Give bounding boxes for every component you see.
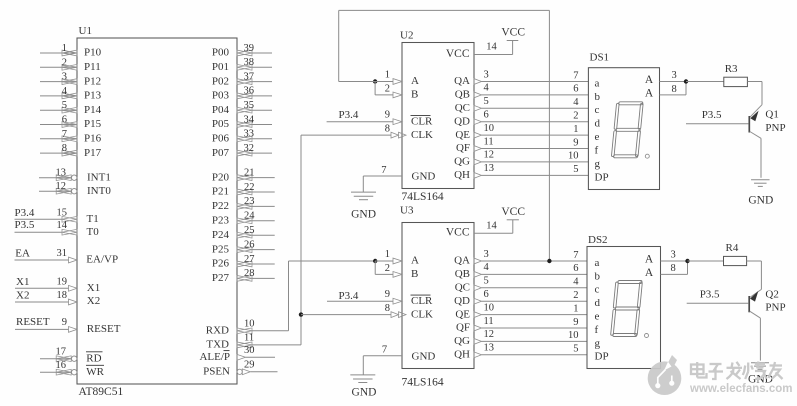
svg-text:g: g (595, 158, 601, 170)
U3 pin 1 A input arrow (393, 258, 402, 264)
wire U3 QD to DS2 segment (482, 300, 588, 302)
U2 pin 1 A input arrow (393, 79, 402, 85)
wire U2 QB to DS1 segment (482, 94, 589, 96)
svg-text:3: 3 (671, 249, 676, 260)
U1 pin 23 P22 wire (252, 205, 275, 207)
U1 pin 2 P11 wire (40, 66, 77, 68)
svg-text:CLR: CLR (411, 295, 433, 307)
U2 pin 11 QF output arrow (474, 146, 482, 152)
svg-text:6: 6 (573, 84, 578, 95)
U2 pin 10 QE output arrow (474, 132, 482, 138)
svg-text:4: 4 (573, 97, 579, 108)
U3 pin 7 GND wire (363, 355, 402, 357)
svg-text:P05: P05 (212, 118, 230, 130)
svg-text:32: 32 (244, 143, 255, 154)
svg-text:9: 9 (385, 110, 390, 121)
wire U3 QC to DS2 segment (482, 287, 588, 289)
RXD net horizontal to U3 A/B (289, 260, 376, 262)
svg-text:DP: DP (595, 171, 609, 183)
cascade net: right riser down to U3 QA row (548, 10, 550, 261)
ground symbol below U2 (351, 191, 376, 193)
svg-text:TXD: TXD (206, 338, 229, 350)
svg-text:P15: P15 (84, 118, 102, 130)
U1 pin 33 P06 wire (252, 138, 272, 140)
svg-text:2: 2 (62, 57, 67, 68)
wire U2 QH to DS1 segment (482, 174, 589, 176)
U1 pin 7 P16 wire (40, 138, 77, 140)
wire U3 QG to DS2 segment (482, 340, 588, 342)
U3 pin 8 CLK input double arrow (391, 312, 399, 318)
RXD net vertical riser (288, 261, 290, 331)
U2 pin 12 QG output arrow (474, 159, 482, 165)
U2 pin 7 GND wire (363, 175, 402, 177)
svg-text:P3.5: P3.5 (15, 219, 35, 231)
svg-text:VCC: VCC (501, 206, 525, 218)
svg-text:R4: R4 (726, 242, 739, 254)
svg-text:QC: QC (455, 102, 470, 114)
transistor Q1 PNP (750, 105, 762, 118)
svg-text:P10: P10 (84, 47, 102, 59)
svg-text:RXD: RXD (206, 324, 229, 336)
svg-text:GND: GND (351, 209, 376, 221)
svg-text:4: 4 (484, 262, 490, 273)
Q1 collector (750, 132, 761, 139)
svg-text:QB: QB (455, 268, 470, 280)
U1 pin 24 P23 wire (252, 220, 275, 222)
svg-text:B: B (411, 268, 418, 280)
svg-text:U1: U1 (79, 25, 92, 37)
U3 pin 2 B input arrow (393, 272, 402, 278)
U1 pin 4 P13 wire (40, 95, 77, 97)
svg-text:QG: QG (454, 156, 470, 168)
svg-text:7: 7 (382, 344, 387, 355)
svg-text:5: 5 (573, 344, 578, 355)
7-segment display DS2 box (587, 247, 661, 369)
svg-text:PNP: PNP (765, 302, 785, 314)
svg-text:38: 38 (244, 57, 255, 68)
svg-text:6: 6 (573, 263, 578, 274)
svg-text:14: 14 (57, 220, 68, 231)
svg-text:8: 8 (62, 143, 67, 154)
svg-text:EA/VP: EA/VP (86, 254, 118, 266)
U1 pin 12 INT0 wire (39, 190, 71, 192)
svg-text:PNP: PNP (765, 122, 785, 134)
svg-text:17: 17 (56, 347, 67, 358)
svg-text:INT0: INT0 (87, 185, 111, 197)
svg-text:QE: QE (455, 308, 470, 320)
svg-text:QE: QE (455, 129, 470, 141)
svg-text:7: 7 (573, 250, 578, 261)
U2 pin 13 QH output arrow (474, 173, 482, 179)
svg-text:INT1: INT1 (87, 171, 111, 183)
svg-text:Q1: Q1 (765, 108, 778, 120)
U1 pin 38 P01 wire (252, 66, 272, 68)
wire R3 to Q1 emitter (747, 81, 762, 83)
svg-text:P11: P11 (84, 61, 101, 73)
svg-text:QA: QA (454, 75, 470, 87)
svg-text:X2: X2 (87, 295, 100, 307)
svg-text:b: b (595, 270, 601, 282)
svg-text:13: 13 (484, 163, 495, 174)
U1 pin 37 P02 wire (252, 81, 272, 83)
svg-text:35: 35 (244, 100, 255, 111)
svg-text:P02: P02 (212, 75, 229, 87)
svg-text:22: 22 (244, 182, 255, 193)
svg-text:9: 9 (385, 289, 390, 300)
wire U2 QD to DS1 segment (482, 121, 589, 123)
DS2 seven segment digit (611, 281, 643, 337)
svg-text:AT89C51: AT89C51 (79, 386, 124, 398)
U1 pin 5 P14 wire (40, 109, 77, 111)
svg-text:P17: P17 (84, 147, 102, 159)
wire U2 QG to DS1 segment (482, 161, 589, 163)
U1 pin 29 PSEN wire (251, 371, 278, 373)
DS2 pin 8 A wire (661, 273, 688, 275)
U1 pin 18 X2 wire (15, 301, 69, 303)
cascade net: junction dot at U2 A/B (373, 79, 377, 83)
U2 pin 5 QC output arrow (474, 105, 482, 111)
svg-text:3: 3 (62, 72, 67, 83)
svg-text:33: 33 (244, 129, 255, 140)
svg-text:74LS164: 74LS164 (402, 376, 444, 388)
U3 pin 11 QF output arrow (474, 325, 482, 331)
svg-text:30: 30 (244, 345, 255, 356)
svg-text:7: 7 (381, 165, 386, 176)
svg-text:39: 39 (244, 43, 255, 54)
svg-text:R3: R3 (725, 63, 738, 75)
svg-text:b: b (595, 91, 601, 103)
svg-text:U3: U3 (400, 205, 414, 217)
junction dot at U3 A/B input (373, 259, 377, 263)
U1 pin 22 P21 wire (252, 191, 275, 193)
U3 pin 9 CLR input wire from P3.4 (327, 300, 393, 302)
svg-text:A: A (411, 255, 419, 267)
svg-text:27: 27 (244, 254, 255, 265)
svg-text:9: 9 (573, 137, 578, 148)
U3 pin 6 QD output arrow (474, 298, 482, 304)
cascade net: horizontal from riser (339, 81, 375, 83)
drop to U3 B (374, 261, 376, 274)
U3 pin 10 QE output arrow (474, 312, 482, 318)
TXD net junction at U3 CLK (299, 312, 303, 316)
svg-text:2: 2 (385, 83, 390, 94)
svg-text:P27: P27 (212, 272, 230, 284)
svg-text:3: 3 (484, 249, 489, 260)
TXD net branch to U2 CLK (301, 134, 391, 136)
resistor R4 (724, 256, 747, 265)
VCC power symbol for U3 (507, 219, 519, 221)
wire U3 QF to DS2 segment (482, 327, 588, 329)
svg-text:12: 12 (484, 329, 495, 340)
resistor R3 (724, 77, 748, 86)
svg-text:P22: P22 (212, 200, 229, 212)
svg-text:X1: X1 (87, 282, 100, 294)
U1 pin 31 EA/VP wire (15, 259, 69, 261)
DS1 pin 3 A wire (660, 81, 687, 83)
svg-text:P3.4: P3.4 (339, 290, 359, 302)
svg-text:3: 3 (484, 69, 489, 80)
svg-text:11: 11 (484, 316, 494, 327)
svg-text:1: 1 (573, 124, 578, 135)
U1 pin 10 RXD wire (serial data net to U3 A/B) (252, 330, 289, 332)
svg-text:12: 12 (484, 150, 495, 161)
svg-text:1: 1 (62, 43, 67, 54)
U1 pin 19 X1 wire (15, 287, 69, 289)
svg-text:X1: X1 (16, 276, 29, 288)
svg-text:2: 2 (573, 290, 578, 301)
svg-text:13: 13 (484, 343, 495, 354)
watermark logo circle (648, 355, 682, 395)
svg-text:RESET: RESET (87, 323, 121, 335)
svg-text:8: 8 (671, 263, 676, 274)
DS1 anode tie vertical (685, 82, 687, 95)
microcontroller U1 box (77, 38, 237, 384)
svg-text:a: a (595, 257, 600, 269)
svg-text:6: 6 (484, 110, 489, 121)
cascade junction dot on U3 QA row (547, 259, 551, 263)
svg-text:c: c (595, 104, 600, 116)
svg-text:CLK: CLK (411, 308, 433, 320)
svg-text:U2: U2 (400, 30, 413, 42)
U1 pin 21 P20 wire (252, 177, 275, 179)
svg-text:d: d (595, 297, 601, 309)
svg-text:P20: P20 (212, 171, 230, 183)
ground symbol at Q1 (751, 179, 770, 181)
svg-text:DS2: DS2 (588, 234, 608, 246)
svg-text:QD: QD (454, 115, 470, 127)
svg-text:8: 8 (672, 84, 677, 95)
svg-text:5: 5 (62, 100, 67, 111)
svg-text:7: 7 (573, 70, 578, 81)
U1 pin 34 P05 wire (252, 124, 272, 126)
svg-text:P04: P04 (212, 104, 230, 116)
svg-text:18: 18 (57, 290, 68, 301)
svg-text:QA: QA (454, 255, 470, 267)
DS1 anode junction dot (684, 79, 688, 83)
svg-text:RESET: RESET (16, 316, 50, 328)
svg-text:P14: P14 (84, 104, 102, 116)
svg-text:P21: P21 (212, 186, 229, 198)
svg-text:QB: QB (455, 89, 470, 101)
svg-text:2: 2 (385, 263, 390, 274)
svg-text:19: 19 (57, 276, 68, 287)
svg-text:GND: GND (412, 171, 436, 183)
DS1 seven segment digit (611, 102, 643, 158)
U1 pin 1 P10 wire (40, 52, 77, 54)
DS2 anode tie vertical (687, 261, 689, 274)
shift register U2 box (402, 43, 474, 189)
svg-text:10: 10 (484, 123, 495, 134)
U2 pin 6 QD output arrow (474, 119, 482, 125)
svg-text:1: 1 (385, 249, 390, 260)
U3 pin 5 QC output arrow (474, 285, 482, 291)
wire DS1 anode to R3 (686, 81, 724, 83)
svg-text:6: 6 (62, 115, 67, 126)
svg-text:4: 4 (573, 277, 579, 288)
svg-text:P12: P12 (84, 75, 101, 87)
svg-text:8: 8 (385, 303, 390, 314)
ground symbol below U3 (350, 374, 375, 376)
svg-text:VCC: VCC (446, 48, 470, 60)
ground symbol at Q2 (751, 362, 769, 364)
U1 pin 32 P07 wire (252, 152, 272, 154)
svg-text:37: 37 (244, 71, 255, 82)
shift register U3 box (402, 223, 474, 369)
svg-text:P01: P01 (212, 61, 229, 73)
svg-text:9: 9 (62, 317, 67, 328)
Q2 collector (750, 311, 761, 318)
svg-text:EA: EA (15, 247, 30, 259)
svg-text:5: 5 (484, 96, 489, 107)
svg-text:GND: GND (352, 387, 377, 399)
svg-text:P07: P07 (212, 147, 230, 159)
DS2 decimal point (645, 334, 649, 338)
wire U3 QH to DS2 segment (482, 354, 588, 356)
svg-text:VCC: VCC (446, 227, 470, 239)
DS1 pin 8 A wire (660, 94, 687, 96)
svg-text:10: 10 (244, 319, 255, 330)
svg-text:34: 34 (244, 114, 255, 125)
U1 pin 13 INT1 wire (39, 177, 71, 179)
U1 pin 14 T0 wire from P3.5 (15, 231, 63, 233)
svg-text:QG: QG (454, 335, 470, 347)
svg-text:T0: T0 (87, 226, 100, 238)
svg-text:A: A (645, 267, 654, 279)
U2 pin 8 CLK input double arrow (391, 132, 399, 138)
svg-text:10: 10 (568, 330, 579, 341)
U1 pin 30 ALE/P wire (246, 356, 276, 358)
svg-text:QH: QH (454, 169, 470, 181)
U1 pin 36 P03 wire (252, 95, 272, 97)
watermark text (stylized CJK strokes) (691, 362, 783, 380)
U1 pin 15 T1 wire from P3.4 (15, 218, 63, 220)
svg-text:A: A (645, 254, 654, 266)
svg-text:DP: DP (595, 351, 609, 363)
U2 pin 9 CLR input wire from P3.4 (327, 121, 393, 123)
svg-text:36: 36 (244, 86, 255, 97)
svg-text:RD: RD (86, 352, 101, 364)
svg-text:B: B (411, 89, 418, 101)
svg-text:QH: QH (454, 349, 470, 361)
svg-text:11: 11 (484, 136, 494, 147)
svg-text:ALE/P: ALE/P (199, 351, 230, 363)
svg-text:28: 28 (244, 268, 255, 279)
DS2 anode junction dot (685, 259, 689, 263)
U2 pin 2 B input arrow (393, 92, 402, 98)
U1 pin 27 P26 wire (252, 263, 275, 265)
U2 pin 3 QA output arrow (474, 79, 482, 85)
wire U3 QB to DS2 segment (482, 273, 588, 275)
svg-text:f: f (595, 324, 599, 336)
svg-text:P24: P24 (212, 229, 230, 241)
svg-text:15: 15 (57, 207, 68, 218)
svg-text:P03: P03 (212, 90, 230, 102)
svg-text:5: 5 (573, 164, 578, 175)
svg-text:P3.4: P3.4 (15, 207, 35, 219)
wire into U3 A (375, 260, 393, 262)
svg-text:74LS164: 74LS164 (402, 191, 444, 203)
cascade net: top span (339, 9, 550, 11)
svg-text:A: A (645, 74, 654, 86)
svg-text:A: A (645, 88, 654, 100)
svg-text:11: 11 (244, 333, 254, 344)
svg-text:e: e (595, 131, 600, 143)
svg-text:c: c (595, 284, 600, 296)
U3 pin 13 QH output arrow (474, 352, 482, 358)
U1 pin 6 P15 wire (40, 124, 77, 126)
svg-text:2: 2 (573, 111, 578, 122)
svg-text:1: 1 (385, 69, 390, 80)
svg-text:DS1: DS1 (590, 51, 610, 63)
TXD net vertical riser (300, 135, 302, 345)
svg-text:CLK: CLK (411, 129, 433, 141)
wire U2 QA to DS1 segment (482, 81, 589, 83)
svg-text:QD: QD (454, 295, 470, 307)
svg-text:P26: P26 (212, 258, 230, 270)
U2 pin 4 QB output arrow (474, 92, 482, 98)
svg-text:P3.5: P3.5 (700, 289, 720, 301)
U1 pin 28 P27 wire (252, 277, 275, 279)
svg-text:9: 9 (573, 317, 578, 328)
svg-text:31: 31 (57, 248, 68, 259)
svg-text:23: 23 (244, 196, 255, 207)
svg-text:P06: P06 (212, 133, 230, 145)
U1 pin 11 TXD wire (clock net to U2/U3 CLK) (252, 344, 301, 346)
svg-text:GND: GND (748, 195, 773, 207)
svg-text:QC: QC (455, 282, 470, 294)
svg-text:24: 24 (244, 211, 255, 222)
U3 pin 4 QB output arrow (474, 272, 482, 278)
svg-text:QF: QF (456, 142, 470, 154)
svg-text:d: d (595, 118, 601, 130)
svg-text:8: 8 (385, 123, 390, 134)
svg-text:6: 6 (484, 289, 489, 300)
U1 pin 35 P04 wire (252, 109, 272, 111)
svg-text:www.elecfans.com: www.elecfans.com (689, 383, 792, 395)
svg-text:PSEN: PSEN (203, 366, 230, 378)
svg-text:f: f (595, 144, 599, 156)
7-segment display DS1 box (588, 68, 659, 190)
svg-text:P25: P25 (212, 243, 230, 255)
svg-text:X2: X2 (16, 290, 29, 302)
svg-text:P3.5: P3.5 (702, 109, 722, 121)
svg-text:QF: QF (456, 322, 470, 334)
U3 pin 14 VCC wire (474, 232, 513, 234)
svg-text:25: 25 (244, 225, 255, 236)
svg-text:7: 7 (62, 129, 67, 140)
U2 pin 14 VCC wire (474, 54, 513, 56)
U1 pin 17 RD wire (40, 358, 71, 360)
U3 pin 3 QA output arrow (474, 258, 482, 264)
svg-text:CLR: CLR (411, 115, 433, 127)
svg-text:P16: P16 (84, 133, 102, 145)
svg-text:10: 10 (568, 151, 579, 162)
U1 pin 25 P24 wire (252, 234, 275, 236)
wire U3 QA to DS2 segment (482, 260, 588, 262)
wire R4 to Q2 emitter (747, 260, 762, 262)
wire U2 QC to DS1 segment (482, 107, 589, 109)
svg-text:16: 16 (56, 360, 67, 371)
TXD net branch to U3 CLK (301, 314, 391, 316)
Q2 base wire from P3.5 (687, 302, 749, 304)
svg-text:Q2: Q2 (765, 289, 778, 301)
U1 pin 16 WR wire (40, 371, 71, 373)
cascade net: drop to U2 B (374, 82, 376, 95)
svg-text:4: 4 (62, 86, 68, 97)
svg-text:P00: P00 (212, 47, 230, 59)
svg-text:1: 1 (573, 303, 578, 314)
svg-text:4: 4 (484, 83, 490, 94)
